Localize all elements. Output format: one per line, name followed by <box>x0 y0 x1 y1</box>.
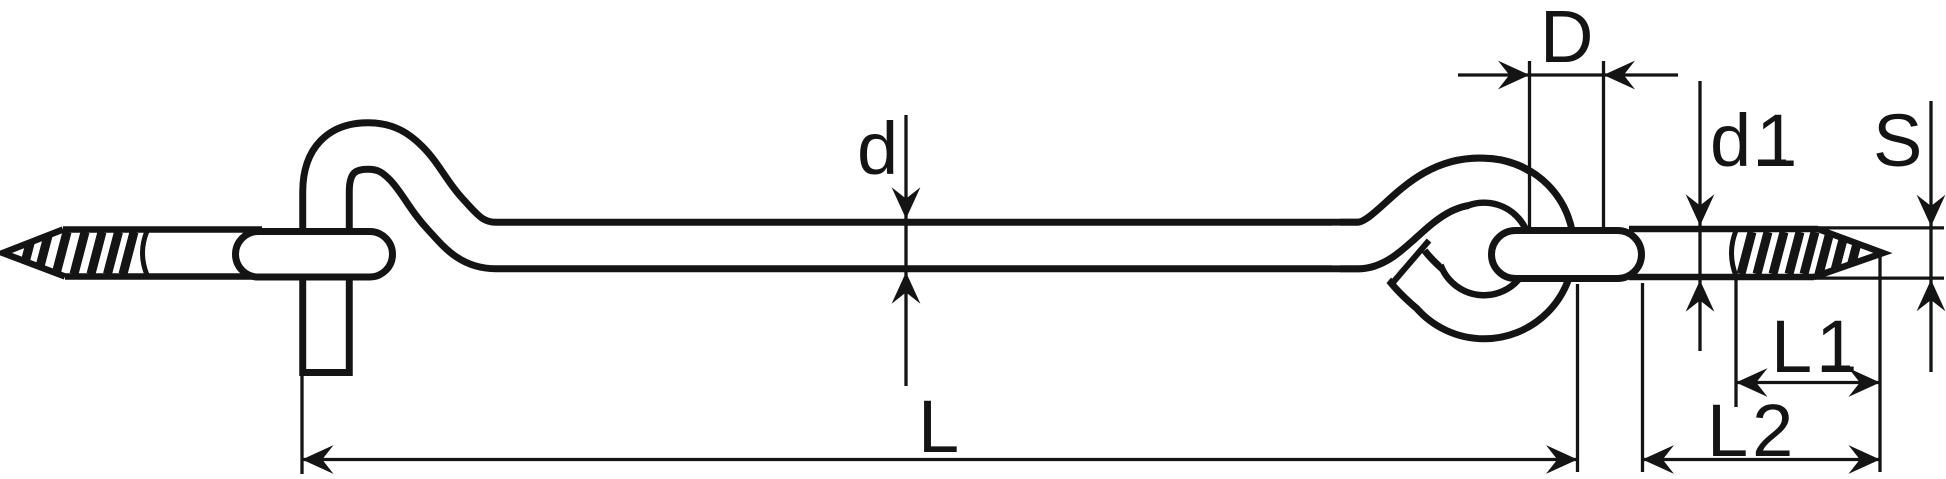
left screw eye: shaft <box>3 230 262 277</box>
hook (gate hook wire: leg, arch, long rod, end loop) <box>326 146 1551 376</box>
wire end cut gap at loop <box>1380 241 1411 278</box>
arrowheads <box>302 61 1945 474</box>
L2 arrows <box>1643 445 1675 474</box>
loop hole enlargement <box>1439 204 1529 294</box>
thread/shank boundary <box>1732 231 1737 277</box>
dimension S line <box>1929 101 1932 372</box>
right screw: shaft <box>1629 229 1818 277</box>
wire end cut face <box>1393 241 1430 284</box>
L1 dimension line <box>1736 381 1880 384</box>
dimension d1 line <box>1698 81 1701 351</box>
right screw: cone tip <box>1814 229 1883 277</box>
svg-text:d1: d1 <box>1710 99 1802 182</box>
loop inner rim <box>1441 203 1531 296</box>
svg-text:L: L <box>918 385 959 468</box>
thin outer extension lines of right screw (for S) <box>1815 226 1944 229</box>
L arrows <box>302 445 334 474</box>
d1 arrows <box>1686 194 1715 226</box>
serif feet for "1" glyphs (target font has footed 1) <box>1758 160 1850 373</box>
L1 arrows <box>1736 368 1768 397</box>
right screw eye capsule (in front of loop) <box>1492 231 1642 279</box>
L2 dimension line <box>1643 458 1881 461</box>
inner rim cleanup <box>1470 208 1511 218</box>
thread/shank boundary <box>143 231 148 275</box>
right screw threads <box>1732 231 1861 277</box>
dimension D extension lines <box>1528 61 1531 227</box>
L dimension line <box>302 458 1578 461</box>
L extension lines <box>300 376 303 474</box>
dimension d vertical line <box>904 115 907 386</box>
d arrows <box>892 187 921 219</box>
dimension D line with tails <box>1458 73 1530 76</box>
L2 extension line <box>1641 283 1644 472</box>
left screw eye capsule (in front of hook leg) <box>236 232 393 278</box>
redraw incoming rod band over cut area <box>1332 181 1527 245</box>
D arrows <box>1498 61 1530 90</box>
S arrows <box>1917 195 1946 227</box>
svg-text:L2: L2 <box>1707 389 1797 472</box>
cone tip <box>3 230 65 277</box>
svg-text:S: S <box>1873 99 1922 182</box>
left screw threads <box>22 231 147 275</box>
svg-text:d: d <box>857 107 898 190</box>
svg-text:L1: L1 <box>1771 305 1861 388</box>
L1 extension lines <box>1734 279 1737 407</box>
svg-text:D: D <box>1540 0 1593 78</box>
